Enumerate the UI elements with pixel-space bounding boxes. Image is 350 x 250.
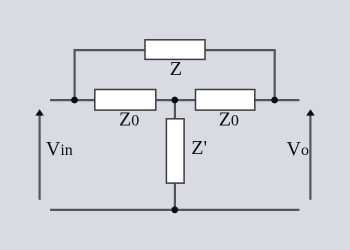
wire middle horizontal [50,99,300,101]
svg-text:Z': Z' [191,137,207,159]
wire top horizontal [75,49,275,51]
impedance Z0 right box [196,90,255,111]
Vo arrow shaft [309,115,311,200]
wire Z' top lead [174,100,176,119]
node dot middle (Z' tap) [171,97,178,104]
svg-text:Z0: Z0 [119,109,139,131]
Vin arrowhead [35,109,44,115]
node dot bottom (ground rail junction) [171,206,178,213]
wire Z' bottom lead [174,183,176,210]
svg-text:Vin: Vin [46,138,73,160]
Vo arrowhead [306,109,315,115]
svg-text:Vo: Vo [287,138,309,160]
impedance Z0 left box [95,90,156,111]
svg-text:Z: Z [170,58,182,80]
svg-text:Z0: Z0 [219,109,239,131]
impedance Z (series bridge box) [145,40,205,60]
wire left vertical drop [73,49,75,100]
node dot right (output node) [271,97,278,104]
node dot left (input node) [71,97,78,104]
wire right vertical drop [274,49,276,100]
Vin arrow shaft [38,115,40,200]
wire bottom horizontal [50,209,300,211]
impedance Z' shunt box [166,119,184,183]
